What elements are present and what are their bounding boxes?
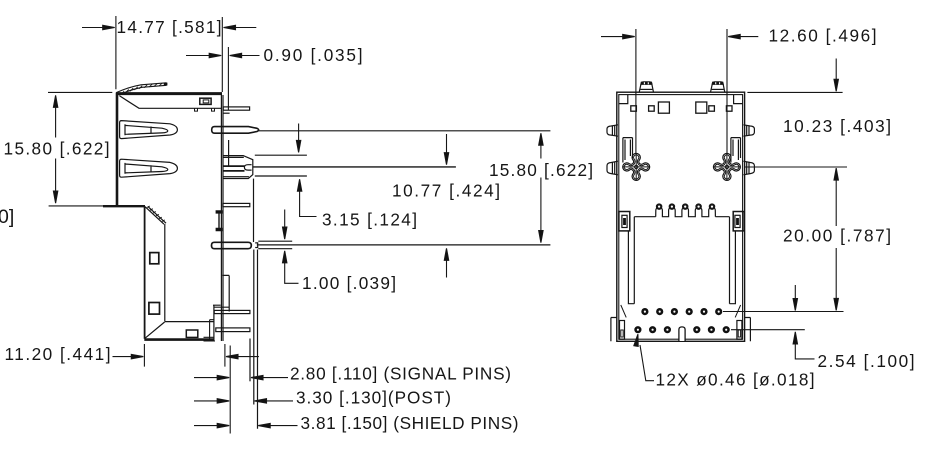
dim 14.77 ext lines: [116, 16, 222, 92]
side view: shield bottom bar: [211, 242, 251, 248]
rear view: channel upper right: [731, 138, 741, 163]
dim 12.60 arrows: [601, 34, 758, 38]
side view: lower pin 1: [214, 310, 250, 313]
dim 2.80 arrows: [194, 375, 288, 379]
rear view: press-fit clover left: [623, 153, 650, 180]
side view: post pair below bar: [254, 250, 258, 429]
line: pin bottom 1.00 upper: [258, 240, 292, 242]
rear view: top post right: [711, 82, 725, 92]
dim shared up arrow: [834, 168, 838, 226]
svg-text:20.00 [.787]: 20.00 [.787]: [783, 226, 891, 246]
side view: contact finger 2: [120, 159, 178, 177]
svg-text:3.30 [.130](POST): 3.30 [.130](POST): [296, 388, 451, 408]
line: seating plane: [257, 244, 551, 246]
rear view: side tab left 2: [607, 161, 618, 175]
rear view: side tab left 1: [607, 125, 618, 136]
side view: post edge above bar: [253, 179, 255, 242]
rear view: side tab right 2: [743, 161, 754, 175]
rear view: pin holes lower row: [636, 327, 729, 332]
svg-text:12X ø0.46 [ø.018]: 12X ø0.46 [ø.018]: [656, 370, 815, 390]
dim 15.80 right dim line + arrows: [539, 133, 543, 242]
side view: signal pin tail: [249, 339, 251, 382]
side view: bottom foot square hole: [186, 330, 198, 337]
rear view: top small holes: [631, 102, 732, 113]
side view: contact finger 1: [120, 121, 178, 139]
side view: inner front wall: [164, 224, 166, 321]
line: block top extended: [255, 154, 307, 156]
dim pin row ext line lower: [731, 329, 805, 331]
rear view: inner body line: [619, 95, 743, 340]
svg-text:0]: 0]: [0, 206, 14, 228]
side view: pegs under inner wall: [195, 108, 215, 111]
dim 0.90 arrows: [186, 53, 260, 57]
dim bottom rows common ext line: [229, 346, 231, 434]
svg-text:10.77 [.424]: 10.77 [.424]: [392, 180, 500, 200]
line: pin bottom 1.00 lower: [258, 248, 292, 250]
svg-text:1.00 [.039]: 1.00 [.039]: [302, 273, 396, 293]
rear view: side tab right 1: [743, 125, 754, 136]
leader 12X: [634, 334, 654, 381]
svg-text:12.60 [.496]: 12.60 [.496]: [769, 25, 877, 45]
side view: top pin: [223, 107, 249, 110]
rear view: latch square right: [733, 212, 744, 231]
side view: vent window: [200, 98, 211, 104]
side view: lower front face: [144, 206, 146, 339]
dim pin row ext line upper: [723, 311, 844, 313]
side view: rear clip nubs: [216, 211, 222, 231]
side view: foot block lines: [204, 320, 216, 341]
dim 10.23 ext line top: [747, 91, 842, 93]
dim 10.23 down arrow: [834, 59, 838, 92]
line: signal pin extended: [253, 166, 456, 168]
dim 12.60 ext lines: [636, 29, 727, 153]
svg-text:10.23 [.403]: 10.23 [.403]: [783, 116, 891, 136]
side view: inner bottom and corner diagonal: [145, 322, 214, 339]
side view: square hole 2: [149, 303, 160, 315]
dim 15.80 left ext lines: [48, 92, 114, 205]
svg-text:15.80 [.622]: 15.80 [.622]: [489, 160, 593, 180]
dim 3.15 arrows + leader: [296, 124, 316, 217]
svg-text:3.81 [.150] (SHIELD PINS): 3.81 [.150] (SHIELD PINS): [301, 413, 519, 433]
side view: mid pin: [223, 203, 250, 206]
svg-text:15.80 [.622]: 15.80 [.622]: [4, 139, 110, 159]
rear view: pin holes upper row: [643, 309, 722, 314]
dim 20.00 lower segment: [834, 248, 838, 310]
rear view: latch square left: [619, 212, 630, 231]
rear view: bottom feet: [611, 318, 751, 342]
svg-text:3.15 [.124]: 3.15 [.124]: [322, 210, 417, 230]
dim 1.00 arrows + leader: [283, 210, 299, 284]
side view: bottom edge: [144, 338, 214, 341]
rear view: press-fit clover right: [713, 153, 740, 180]
side view: shield pin end cap: [255, 243, 258, 248]
side view: flange lines: [214, 140, 229, 312]
rear view: top-left corner notch: [619, 95, 628, 104]
rear view: inner box top edges: [634, 216, 729, 218]
dim 14.77 arrows: [82, 25, 256, 29]
svg-text:11.20 [.441]: 11.20 [.441]: [5, 344, 111, 364]
dim 11.20 ext lines: [144, 344, 225, 367]
rear view: top-right corner notch: [734, 95, 743, 104]
svg-text:0.90 [.035]: 0.90 [.035]: [264, 45, 363, 65]
side view: board-lock bar: [212, 127, 259, 134]
side view: square hole 1: [150, 253, 159, 264]
line: board-lock reference: [259, 130, 551, 132]
side view: front face: [116, 93, 119, 206]
svg-text:14.77 [.581]: 14.77 [.581]: [117, 17, 222, 37]
side view: top edge: [116, 92, 222, 95]
rear view: center post tab: [679, 327, 685, 341]
dim 15.80 left dim line + arrows: [53, 95, 57, 203]
rear view: contact comb fingers: [656, 204, 716, 216]
rear view: channels lower: [628, 231, 735, 303]
side view: lower pin 2: [216, 328, 250, 332]
rear view: inner box walls: [634, 217, 729, 304]
side view: lower-front shelf: [103, 205, 145, 207]
rear view: bottom corner brackets: [620, 321, 625, 340]
dim 0.90 ext line: [227, 47, 229, 110]
side view: signal pin block: [223, 156, 253, 179]
dim 10.77 arrows: [444, 134, 448, 278]
dim 2.54 arrows + leader: [793, 285, 814, 359]
side view: front chamfer (hatched): [145, 206, 166, 224]
rear view: top post left: [639, 82, 653, 92]
svg-text:2.80 [.110] (SIGNAL PINS): 2.80 [.110] (SIGNAL PINS): [290, 363, 511, 383]
line: clover centre reference: [745, 166, 848, 168]
dim 3.81 arrows: [194, 423, 298, 427]
side view: rear step: [213, 305, 221, 341]
side view: latch spring (curved, hatched): [117, 83, 168, 95]
side view: rear face double line: [221, 93, 223, 342]
rear view: outer body: [617, 92, 745, 341]
side view: inner top slant and inner wall: [120, 96, 222, 109]
dim 3.30 arrows: [194, 399, 293, 403]
svg-text:2.54 [.100]: 2.54 [.100]: [818, 351, 915, 371]
rear view: corner chamfer ticks: [621, 305, 741, 317]
rear view: channel upper left: [623, 138, 633, 163]
dim 11.20 arrows: [113, 354, 259, 358]
line: block bottom extended: [255, 175, 307, 177]
